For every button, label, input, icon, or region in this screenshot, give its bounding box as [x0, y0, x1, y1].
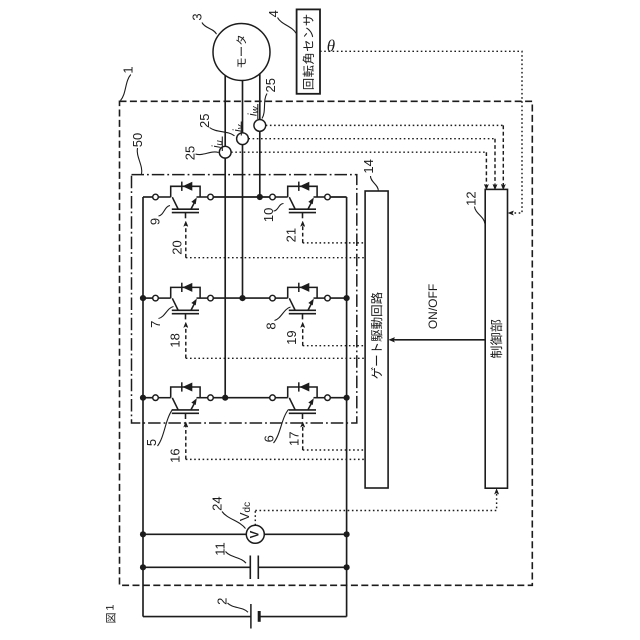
- svg-text:7: 7: [148, 321, 163, 328]
- svg-text:25: 25: [197, 114, 212, 128]
- svg-text:1: 1: [121, 66, 136, 73]
- junction node: [140, 531, 146, 537]
- svg-text:50: 50: [130, 133, 145, 147]
- gate line 20 vertical: [185, 225, 187, 258]
- gate line 16 vertical: [185, 426, 187, 460]
- controller box 12: [485, 189, 507, 488]
- IGBT 10 with freewheel diode: [270, 182, 331, 219]
- leader 7: [159, 307, 174, 319]
- wire row2 N-side: [330, 297, 346, 299]
- leader 25 iv: [210, 128, 235, 136]
- gate line 21 vertical: [302, 225, 304, 243]
- junction node: [140, 395, 146, 401]
- junction node: [140, 295, 146, 301]
- caption 図: [106, 613, 116, 622]
- leader 25 iw: [262, 94, 267, 119]
- junction node: [239, 295, 245, 301]
- motor M 3: [213, 24, 270, 81]
- capacitor 11 plate: [257, 556, 259, 580]
- junction node: [257, 194, 263, 200]
- IGBT 6 with freewheel diode: [270, 382, 331, 419]
- gate line 16 horizontal: [186, 458, 365, 460]
- current sensor 25 (iv): [237, 133, 249, 145]
- iv signal drop: [494, 139, 496, 186]
- junction node: [222, 395, 228, 401]
- leader 5: [158, 410, 173, 447]
- svg-text:θ: θ: [327, 37, 335, 56]
- leader 1: [121, 75, 131, 101]
- gate line 17 horizontal: [303, 449, 365, 451]
- wire row3 P-side: [143, 397, 153, 399]
- theta signal line: [320, 51, 522, 213]
- iv signal arrow: [493, 184, 497, 189]
- gate drive text ゲート駆動回路: [371, 292, 383, 379]
- svg-text:17: 17: [287, 432, 302, 446]
- iw signal drop: [502, 125, 504, 185]
- wire row2 mid: [213, 297, 269, 299]
- wire row3 mid: [213, 397, 269, 399]
- gate drive circuit box 14: [365, 191, 388, 488]
- iu signal drop: [485, 152, 487, 185]
- svg-text:9: 9: [147, 218, 162, 225]
- svg-text:19: 19: [284, 330, 299, 344]
- svg-text:21: 21: [283, 228, 298, 242]
- leader 6: [274, 409, 289, 443]
- svg-text:V: V: [249, 530, 261, 538]
- leader 3: [202, 23, 217, 35]
- gate line 16 arrow: [184, 422, 188, 427]
- gate line 18 vertical: [185, 326, 187, 358]
- leader 4: [278, 18, 297, 34]
- svg-text:14: 14: [361, 159, 376, 173]
- leader 24: [222, 512, 246, 529]
- battery 2 short plate: [258, 611, 261, 622]
- svg-text:24: 24: [209, 496, 224, 510]
- iw signal arrow: [501, 184, 505, 189]
- gate line 18 arrow: [184, 322, 188, 327]
- IGBT 9 with freewheel diode: [153, 182, 214, 219]
- wire cap row left: [143, 566, 250, 568]
- current sensor 25 (iu): [219, 146, 231, 158]
- leader 8: [275, 307, 291, 321]
- svg-text:8: 8: [263, 322, 278, 329]
- gate line 19 arrow: [301, 322, 305, 327]
- ON/OFF arrow: [389, 338, 395, 343]
- svg-text:11: 11: [212, 542, 227, 556]
- controller text 制御部: [490, 320, 502, 358]
- Vdc signal stub: [254, 511, 256, 526]
- svg-text:3: 3: [190, 13, 205, 20]
- battery 2 long plate: [250, 604, 252, 629]
- Vdc signal line: [255, 492, 496, 511]
- svg-text:20: 20: [170, 240, 185, 254]
- leader 25 iu: [196, 152, 219, 155]
- voltage sensor 24: [246, 525, 264, 543]
- wire row2 P-side: [143, 297, 153, 299]
- current sensor 25 (iw): [254, 120, 266, 132]
- svg-text:18: 18: [168, 333, 183, 347]
- ON/OFF line: [391, 339, 486, 341]
- gate line 21 horizontal: [303, 242, 365, 244]
- gate line 19 horizontal: [303, 345, 365, 347]
- wire battery row left: [143, 616, 251, 618]
- svg-text:5: 5: [144, 439, 159, 446]
- svg-text:ON/OFF: ON/OFF: [426, 284, 440, 329]
- IGBT 7 with freewheel diode: [153, 283, 214, 320]
- gate line 17 arrow: [301, 422, 305, 427]
- svg-text:25: 25: [183, 146, 198, 160]
- svg-text:16: 16: [168, 448, 183, 462]
- wire cap row right: [258, 566, 346, 568]
- leader 10: [274, 203, 284, 211]
- Vdc signal arrow: [495, 489, 499, 494]
- junction node: [344, 564, 350, 570]
- gate line 20 arrow: [184, 221, 188, 226]
- wire row1 N-side: [330, 196, 346, 198]
- leader 12: [475, 207, 485, 224]
- svg-text:2: 2: [215, 598, 230, 605]
- leader 11: [226, 552, 247, 564]
- iw signal line: [266, 124, 504, 126]
- gate line 17 vertical: [302, 426, 304, 450]
- wire P bus (left): [142, 197, 144, 617]
- iu signal arrow: [484, 184, 488, 189]
- enclosure box 1 (ECU, dashed): [120, 101, 533, 585]
- gate line 19 vertical: [302, 326, 304, 345]
- IGBT 8 with freewheel diode: [270, 283, 331, 320]
- capacitor 11 plate: [249, 556, 251, 580]
- wire battery row right: [259, 616, 346, 618]
- gate line 18 horizontal: [186, 357, 365, 359]
- gate line 20 horizontal: [186, 257, 365, 259]
- wire row1 P-side: [143, 196, 153, 198]
- wire phase u: [224, 75, 226, 397]
- leader 50: [137, 148, 142, 174]
- wire row1 mid: [213, 196, 269, 198]
- power module box 50 (dash-dot): [132, 175, 357, 423]
- wire phase v: [242, 81, 244, 299]
- rotation angle sensor box 4: [297, 9, 320, 93]
- wire N bus (right): [346, 197, 348, 617]
- svg-text:25: 25: [263, 78, 278, 92]
- wire row3 N-side: [330, 397, 346, 399]
- iu signal line: [231, 151, 486, 153]
- iv signal line: [248, 138, 495, 140]
- leader 14: [370, 176, 378, 191]
- motor text モータ: [236, 36, 246, 68]
- junction node: [344, 295, 350, 301]
- svg-text:12: 12: [464, 191, 479, 205]
- svg-text:10: 10: [261, 208, 276, 222]
- junction node: [344, 395, 350, 401]
- leader 9: [159, 206, 171, 217]
- junction node: [140, 564, 146, 570]
- sensor text 回転角センサ: [303, 15, 314, 89]
- svg-text:4: 4: [266, 10, 281, 17]
- wire V row: [143, 533, 347, 535]
- theta signal arrow: [508, 211, 513, 215]
- IGBT 5 with freewheel diode: [153, 382, 214, 419]
- junction node: [344, 531, 350, 537]
- wire phase w: [259, 74, 261, 197]
- leader 2: [228, 603, 249, 612]
- svg-text:1: 1: [105, 604, 117, 610]
- gate line 21 arrow: [301, 221, 305, 226]
